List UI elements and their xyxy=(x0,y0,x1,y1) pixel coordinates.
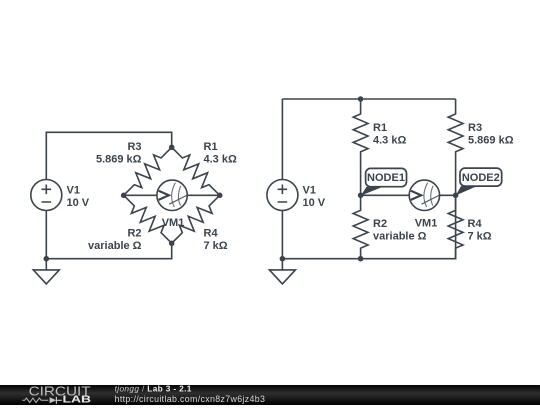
node ground junction (left circuit) xyxy=(44,256,50,262)
resistor R2 (right circuit, variable) xyxy=(353,195,368,259)
svg-text:tjongg / Lab 3 - 2.1: tjongg / Lab 3 - 2.1 xyxy=(115,383,192,393)
voltmeter VM1 (left) xyxy=(157,180,187,210)
resistor R1 (bridge top-right arm) xyxy=(166,142,224,200)
svg-text:NODE2: NODE2 xyxy=(462,172,500,184)
wire V1 bottom to bottom rail xyxy=(281,211,283,259)
svg-text:R4: R4 xyxy=(204,228,219,240)
svg-text:VM1: VM1 xyxy=(415,218,438,230)
resistor R3 (right circuit) xyxy=(448,99,463,163)
wire top rail xyxy=(282,98,455,100)
node bottom of bridge xyxy=(169,241,175,247)
resistor R2 (bridge bottom-left arm, variable) xyxy=(118,190,176,248)
wire voltmeter to node2 xyxy=(440,194,456,196)
wire node1 to voltmeter xyxy=(361,194,410,196)
svg-text:R1: R1 xyxy=(204,141,218,153)
svg-text:5.869 kΩ: 5.869 kΩ xyxy=(96,154,142,166)
svg-text:7 kΩ: 7 kΩ xyxy=(204,240,228,252)
wire voltmeter to bridge right node xyxy=(187,194,219,196)
svg-text:V1: V1 xyxy=(303,184,316,196)
svg-text:4.3 kΩ: 4.3 kΩ xyxy=(373,135,406,147)
node flag NODE2 xyxy=(456,168,502,195)
wire bottom rail xyxy=(282,195,455,258)
node R1 top junction xyxy=(358,96,364,102)
node left of bridge xyxy=(121,193,127,199)
node top of bridge xyxy=(169,145,175,151)
resistor R1 (right circuit) xyxy=(353,99,368,163)
svg-text:NODE1: NODE1 xyxy=(367,172,405,184)
svg-text:R3: R3 xyxy=(127,141,141,153)
svg-text:R3: R3 xyxy=(468,122,482,134)
svg-text:5.869 kΩ: 5.869 kΩ xyxy=(468,135,514,147)
svg-text:10 V: 10 V xyxy=(67,197,90,209)
wire V1 top to bridge top xyxy=(46,132,171,179)
ground (left) xyxy=(33,259,59,284)
svg-text:variable Ω: variable Ω xyxy=(88,240,142,252)
svg-text:VM1: VM1 xyxy=(162,217,185,229)
wire V1 top to top rail xyxy=(281,99,283,180)
wire bottom of bridge to ground junction xyxy=(46,243,171,258)
node NODE1 junction xyxy=(358,193,364,199)
ground (right) xyxy=(269,259,295,284)
svg-text:http://circuitlab.com/cxn8z7w6: http://circuitlab.com/cxn8z7w6jz4b3 xyxy=(115,394,266,404)
svg-text:R2: R2 xyxy=(127,228,141,240)
svg-text:R2: R2 xyxy=(373,218,387,230)
resistor R3 (bridge top-left arm) xyxy=(118,142,176,200)
wire bridge left node to voltmeter xyxy=(124,194,157,196)
svg-text:V1: V1 xyxy=(67,184,80,196)
voltage source V1 (right) xyxy=(267,180,298,211)
voltmeter VM1 (right) xyxy=(409,180,440,210)
node right of bridge xyxy=(217,193,223,199)
wire V1 bottom to ground junction xyxy=(45,211,47,259)
svg-text:variable Ω: variable Ω xyxy=(373,230,427,242)
wire R3 to node2 xyxy=(455,163,457,195)
node R2 bottom junction xyxy=(358,256,364,262)
svg-text:10 V: 10 V xyxy=(303,197,326,209)
svg-text:7 kΩ: 7 kΩ xyxy=(468,230,492,242)
voltage source V1 (left) xyxy=(31,180,62,211)
svg-text:4.3 kΩ: 4.3 kΩ xyxy=(204,154,237,166)
svg-text:R1: R1 xyxy=(373,122,387,134)
logo diode xyxy=(50,397,57,403)
resistor R4 (right circuit) xyxy=(448,195,463,259)
node ground junction (right circuit) xyxy=(280,256,286,262)
node NODE2 junction xyxy=(453,193,459,199)
svg-text:R4: R4 xyxy=(468,218,483,230)
logo resistor zigzag xyxy=(22,398,48,402)
svg-text:LAB: LAB xyxy=(63,395,92,405)
wire R1 to node1 xyxy=(360,163,362,195)
resistor R4 (bridge bottom-right arm) xyxy=(166,190,224,248)
node flag NODE1 xyxy=(361,168,407,195)
